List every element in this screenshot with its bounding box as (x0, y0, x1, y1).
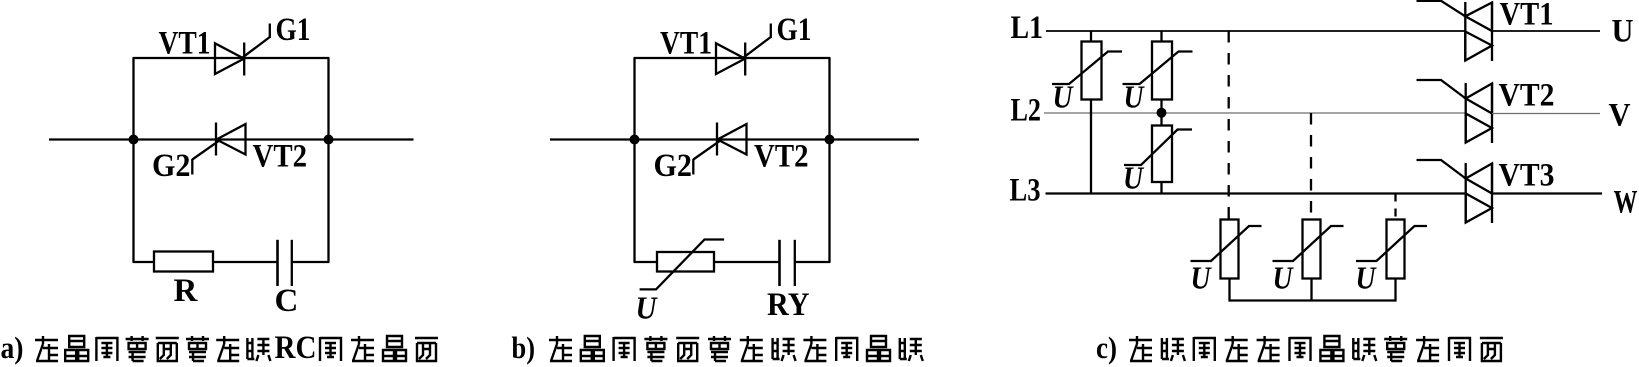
svg-text:U: U (1053, 79, 1075, 115)
node: circuit b left junction (630, 135, 640, 145)
svg-text:b): b) (512, 330, 536, 365)
svg-text:VT2: VT2 (754, 139, 809, 175)
varistor RV3 diagonal and hooks (1124, 130, 1192, 166)
wire: circuit b top branch (634, 57, 831, 59)
varistor RV5 diagonal and hooks (1273, 226, 1344, 261)
varistor RV1 body (1082, 42, 1102, 100)
svg-text:L2: L2 (1011, 93, 1042, 129)
varistor RV4 diagonal and hooks (1191, 226, 1262, 261)
svg-text:VT2: VT2 (1499, 78, 1555, 114)
svg-text:U: U (1123, 160, 1145, 196)
triac VT3 triangles (1466, 164, 1492, 223)
varistor RV1 (L1-L3) lead from L1 (1090, 31, 1092, 43)
wire: RV2 lead down to L2 (1160, 100, 1162, 114)
wire: phase L3 (1046, 192, 1466, 194)
wire: dashed drop from L2 to RV5 (1310, 113, 1312, 220)
svg-text:W: W (1614, 185, 1638, 221)
resistor R (circuit a) (154, 252, 213, 272)
svg-text:U: U (636, 290, 659, 326)
svg-text:VT2: VT2 (253, 139, 308, 175)
varistor RV2 diagonal and hooks (1123, 52, 1193, 85)
varistor RV5 body (1303, 220, 1321, 279)
wire: circuit a bottom middle segment (213, 261, 277, 263)
svg-text:U: U (1273, 260, 1295, 296)
svg-text:RY: RY (767, 287, 810, 323)
wire: phase L2 (1044, 112, 1466, 114)
caption a CJK run 2 (320, 336, 438, 361)
triac VT2 triangles (1466, 84, 1492, 143)
svg-text:U: U (1356, 260, 1378, 296)
wire: dashed drop from L1 to RV4 (1228, 31, 1230, 220)
triac VT2 gate (1417, 80, 1466, 99)
thyristor VT2 (circuit a) (192, 123, 245, 175)
wire: circuit b main horizontal lead (550, 138, 919, 140)
varistor RV3 (L2-L3) lead from L2 (1160, 113, 1162, 127)
capacitor RY (circuit b) (780, 240, 795, 286)
thyristor VT1 (circuit b) (716, 24, 771, 76)
node: RV2/RV3 junction on L2 (1157, 108, 1167, 118)
svg-text:G1: G1 (276, 12, 311, 48)
svg-text:U: U (1191, 260, 1213, 296)
wire: RV5 stub to bottom bus (1310, 279, 1312, 302)
triac VT1 triangles (1465, 3, 1492, 61)
caption c CJK run (1129, 336, 1503, 361)
triac VT1 gate (1417, 1, 1466, 16)
svg-text:L3: L3 (1010, 173, 1041, 209)
wire: circuit b right rail (828, 58, 830, 262)
varistor RV2 (L1-L2) lead from L1 (1160, 31, 1162, 43)
svg-text:RC: RC (275, 330, 317, 366)
varistor RV (circuit b) diagonal and hooks (640, 240, 725, 290)
svg-text:c): c) (1096, 330, 1117, 365)
triac VT1 bars (1465, 2, 1492, 61)
svg-text:G2: G2 (152, 148, 191, 184)
wire: RV6 stub to bottom bus (1394, 279, 1396, 302)
caption a CJK run 1 (35, 336, 270, 361)
svg-text:U: U (1124, 79, 1146, 115)
triac VT3 bars (1466, 163, 1492, 223)
svg-text:G1: G1 (777, 12, 812, 48)
wire: output U (1492, 30, 1600, 32)
wire: circuit b bottom middle segment (714, 261, 779, 263)
varistor RV6 body (1387, 220, 1405, 279)
svg-text:R: R (174, 273, 199, 309)
wire: output V (1492, 113, 1600, 115)
wire: RV4 stub to bottom bus (1228, 279, 1230, 302)
wire: circuit a bottom left segment (133, 261, 155, 263)
wire: circuit b left rail (633, 58, 635, 262)
varistor RV (circuit b) body (657, 252, 714, 272)
wire: output W (1492, 192, 1602, 194)
node: circuit b right junction (825, 135, 835, 145)
svg-text:L1: L1 (1011, 10, 1044, 46)
svg-text:U: U (1612, 14, 1634, 50)
svg-text:G2: G2 (654, 148, 693, 184)
triac VT2 bars (1466, 83, 1492, 143)
wire: circuit a right rail (327, 58, 329, 262)
capacitor C (circuit a) (278, 240, 292, 286)
svg-text:VT1: VT1 (159, 26, 211, 62)
svg-text:VT1: VT1 (660, 26, 712, 62)
varistor RV1 diagonal and hooks (1052, 52, 1122, 85)
thyristor VT1 (circuit a) (215, 24, 270, 76)
svg-text:VT3: VT3 (1499, 158, 1555, 194)
svg-text:C: C (275, 283, 299, 319)
varistor RV3 body (1152, 126, 1172, 183)
varistor RV6 diagonal and hooks (1356, 226, 1427, 261)
thyristor VT2 (circuit b) (693, 123, 746, 175)
wire: circuit a left rail (132, 58, 134, 262)
triac VT3 gate (1417, 160, 1466, 179)
wire: circuit a main horizontal lead (49, 138, 414, 140)
svg-text:V: V (1609, 98, 1631, 134)
wire: RV1 lead down to L3 (1090, 100, 1092, 194)
wire: phase L1 (1046, 30, 1465, 32)
wire: RV3 lead down to L3 (1160, 182, 1162, 194)
svg-text:VT1: VT1 (1500, 0, 1554, 33)
varistor RV2 body (1152, 42, 1172, 100)
node: circuit a right junction (324, 135, 334, 145)
node: circuit a left junction (129, 135, 139, 145)
wire: circuit a bottom right segment (292, 261, 330, 263)
wire: bottom bus joining RV4 RV5 RV6 (1229, 299, 1397, 301)
wire: dashed drop from L3 to RV6 (1394, 194, 1396, 220)
caption b CJK run (549, 336, 923, 361)
wire: circuit b bottom left segment (634, 261, 658, 263)
svg-text:a): a) (1, 330, 24, 365)
wire: circuit b bottom right segment (795, 261, 831, 263)
varistor RV4 body (1221, 220, 1239, 279)
wire: circuit a top branch (133, 57, 330, 59)
